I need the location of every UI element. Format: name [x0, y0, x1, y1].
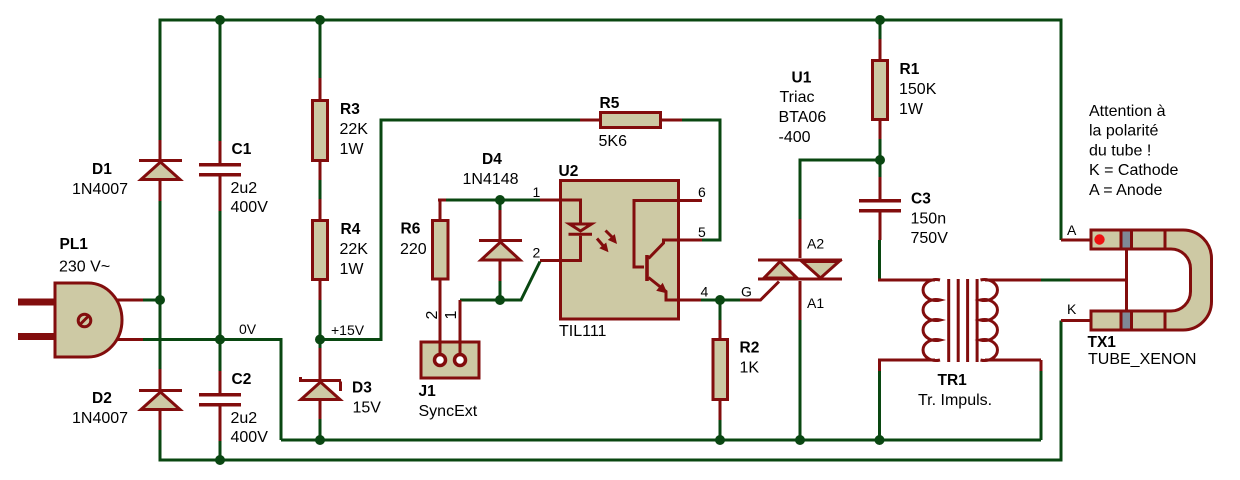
svg-text:5K6: 5K6: [599, 133, 628, 150]
svg-text:6: 6: [698, 184, 706, 200]
svg-text:R4: R4: [341, 221, 361, 238]
svg-text:PL1: PL1: [60, 236, 89, 253]
svg-text:1K: 1K: [740, 360, 760, 377]
svg-text:1N4148: 1N4148: [463, 171, 519, 188]
svg-text:1W: 1W: [340, 261, 365, 278]
svg-text:R3: R3: [340, 101, 360, 118]
svg-text:R6: R6: [401, 221, 421, 238]
svg-text:R1: R1: [900, 61, 920, 78]
svg-text:C2: C2: [232, 371, 252, 388]
svg-text:K = Cathode: K = Cathode: [1089, 162, 1179, 179]
svg-text:22K: 22K: [340, 241, 369, 258]
svg-text:U2: U2: [559, 163, 579, 180]
svg-text:A2: A2: [807, 235, 824, 251]
svg-text:TX1: TX1: [1088, 334, 1117, 351]
svg-text:D3: D3: [352, 380, 372, 397]
svg-text:2u2: 2u2: [231, 180, 258, 197]
svg-text:BTA06: BTA06: [779, 109, 827, 126]
svg-text:K: K: [1067, 301, 1077, 317]
svg-text:4: 4: [701, 284, 709, 300]
svg-text:J1: J1: [419, 383, 437, 400]
svg-text:1N4007: 1N4007: [72, 181, 128, 198]
svg-text:1W: 1W: [899, 101, 924, 118]
svg-text:2u2: 2u2: [231, 410, 258, 427]
svg-text:R2: R2: [740, 340, 760, 357]
svg-text:U1: U1: [792, 70, 812, 87]
svg-text:R5: R5: [600, 95, 620, 112]
svg-text:1N4007: 1N4007: [72, 410, 128, 427]
svg-text:TIL111: TIL111: [559, 323, 607, 340]
svg-text:150n: 150n: [911, 211, 947, 228]
svg-text:Triac: Triac: [780, 89, 815, 106]
svg-text:15V: 15V: [353, 400, 382, 417]
svg-text:+15V: +15V: [331, 322, 365, 338]
svg-text:Attention à: Attention à: [1089, 103, 1166, 120]
svg-text:1: 1: [443, 311, 460, 320]
svg-text:D2: D2: [92, 390, 112, 407]
svg-text:A = Anode: A = Anode: [1089, 182, 1163, 199]
svg-text:TR1: TR1: [938, 372, 968, 389]
svg-text:Tr. Impuls.: Tr. Impuls.: [918, 392, 992, 409]
svg-text:D4: D4: [482, 151, 502, 168]
svg-text:400V: 400V: [231, 199, 269, 216]
svg-text:du tube !: du tube !: [1089, 142, 1151, 159]
svg-text:A: A: [1067, 222, 1077, 238]
svg-text:SyncExt: SyncExt: [419, 403, 478, 420]
svg-text:400V: 400V: [231, 429, 269, 446]
svg-text:220: 220: [400, 241, 427, 258]
svg-text:1W: 1W: [340, 141, 365, 158]
svg-text:2: 2: [424, 311, 441, 320]
svg-text:D1: D1: [92, 161, 112, 178]
svg-text:0V: 0V: [239, 321, 257, 337]
svg-text:TUBE_XENON: TUBE_XENON: [1088, 351, 1196, 368]
svg-text:C1: C1: [232, 141, 252, 158]
svg-text:230 V~: 230 V~: [59, 259, 110, 276]
svg-text:5: 5: [698, 224, 706, 240]
svg-text:22K: 22K: [340, 121, 369, 138]
svg-text:1: 1: [533, 184, 541, 200]
svg-text:A1: A1: [807, 295, 824, 311]
svg-text:2: 2: [533, 245, 541, 261]
svg-text:C3: C3: [911, 191, 931, 208]
svg-text:750V: 750V: [911, 230, 949, 247]
svg-text:150K: 150K: [899, 81, 937, 98]
svg-text:G: G: [741, 284, 752, 300]
svg-text:-400: -400: [779, 129, 811, 146]
svg-text:la polarité: la polarité: [1089, 123, 1158, 140]
